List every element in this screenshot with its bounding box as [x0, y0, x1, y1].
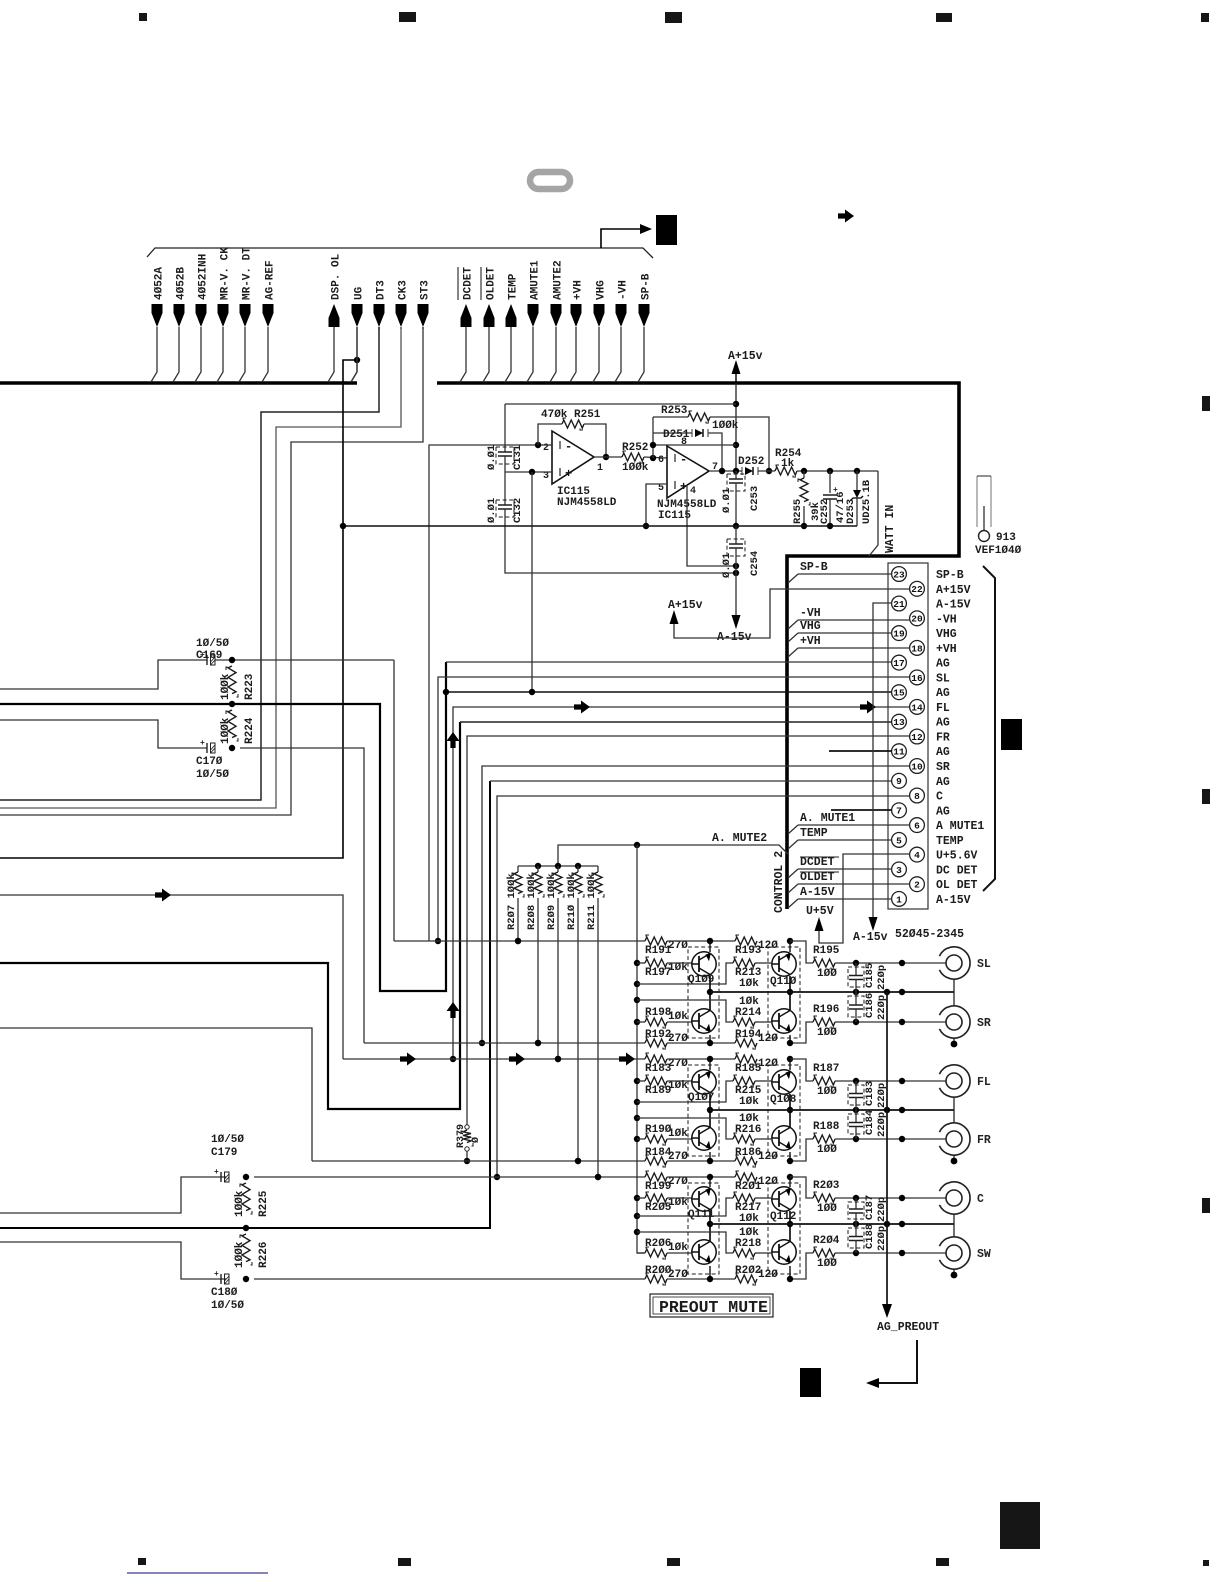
wire transistor leads right	[789, 1059, 791, 1070]
wire pin3 node descent to AG row	[531, 472, 533, 692]
rca jack SL	[939, 947, 970, 979]
wire A.MUTE2 run	[558, 845, 788, 866]
svg-text:DCDET: DCDET	[800, 856, 835, 869]
wire bank resistor lead	[597, 898, 599, 1177]
svg-text:1ØØ: 1ØØ	[817, 1027, 837, 1039]
junction C252-rail	[827, 523, 833, 529]
connector pin 1 (A-15V)	[892, 892, 907, 907]
resistor R204 100 output lower	[790, 1253, 813, 1279]
wire C131 to pin3 node	[504, 456, 506, 505]
wire C180 feed from left edge	[0, 1242, 226, 1279]
bus 2 (thick) with cable border	[437, 383, 959, 909]
wire C169 node to SL row	[393, 660, 395, 941]
svg-text:22: 22	[911, 584, 923, 595]
svg-text:VHG: VHG	[800, 620, 821, 633]
op-amp U1 IC115 (first)	[552, 431, 594, 484]
svg-text:UG: UG	[354, 286, 366, 300]
wire ST3 run	[0, 327, 423, 815]
signal arrow OLDET	[484, 304, 495, 327]
wire pin13 AG row	[460, 721, 892, 723]
wire jack shield link	[953, 979, 955, 1006]
page registration marks	[139, 13, 147, 21]
svg-text:R211 1ØØk: R211 1ØØk	[586, 873, 598, 930]
resistor R213 10k	[637, 963, 733, 984]
signal arrow 4052A	[152, 304, 163, 327]
svg-text:1Øk: 1Øk	[739, 996, 759, 1008]
svg-text:7: 7	[896, 806, 902, 817]
wire arrow stem	[550, 327, 556, 382]
svg-text:C186: C186	[864, 993, 876, 1018]
transistor Q108 lower	[772, 1126, 796, 1150]
wire SR input row	[364, 1042, 645, 1044]
svg-text:R2Ø4: R2Ø4	[813, 1235, 840, 1247]
capacitor C188 220p	[855, 1224, 857, 1237]
svg-text:1Øk: 1Øk	[668, 1242, 688, 1254]
junction emitter bottom right	[787, 1040, 793, 1046]
signal arrow MR-V. DT	[240, 304, 251, 327]
dashed box transistor pair left	[688, 947, 719, 1038]
svg-text:NJM4558LD: NJM4558LD	[557, 497, 617, 509]
svg-text:R379: R379	[456, 1124, 467, 1148]
svg-text:FL: FL	[936, 702, 950, 715]
junction R379-FR row	[464, 1158, 470, 1164]
junction pin3-AG row	[529, 689, 535, 695]
svg-text:AG: AG	[936, 658, 950, 671]
svg-text:R251: R251	[574, 409, 601, 421]
svg-text:1ØØk: 1ØØk	[220, 717, 232, 744]
svg-text:12Ø: 12Ø	[758, 1269, 778, 1281]
svg-text:1Øk: 1Øk	[739, 1227, 759, 1239]
svg-text:1ØØk: 1ØØk	[220, 673, 232, 700]
junction R255-rail	[801, 523, 807, 529]
zener diode D253 UDZ5.1B	[856, 471, 858, 490]
signal arrow AMUTE1	[528, 304, 539, 327]
overline DCDET	[800, 856, 839, 858]
wire AG thick from left edge (y=704)	[0, 662, 446, 991]
junction SR descent	[479, 1040, 485, 1046]
wire bank resistor lead	[557, 898, 559, 1059]
bus 1 (thick)	[0, 381, 357, 385]
capacitor C180	[220, 1274, 222, 1284]
svg-text:AMUTE1: AMUTE1	[530, 260, 542, 300]
svg-text:1Ø/5Ø: 1Ø/5Ø	[211, 1300, 244, 1312]
junction bank resistor	[515, 938, 521, 944]
wire op-amp pin2 descent x=429	[429, 445, 538, 941]
wire collector rail	[710, 991, 954, 993]
junction x653 y445	[650, 442, 656, 448]
junction emitter top left	[707, 938, 713, 944]
svg-text:WATT IN: WATT IN	[884, 505, 897, 553]
capacitor C183 220p	[855, 1081, 857, 1094]
wire A+15v to pin22	[674, 589, 910, 638]
junction out-C253	[733, 468, 739, 474]
junction FL descent	[450, 1056, 456, 1062]
resistor R200 270 lower	[645, 1275, 667, 1283]
signal arrow AG-REF	[263, 304, 274, 327]
svg-text:FR: FR	[936, 732, 950, 745]
junction rail trunk	[884, 989, 890, 995]
svg-text:15: 15	[893, 688, 905, 699]
off-page connector block (right)	[1001, 719, 1022, 750]
signal arrow DT3	[374, 304, 385, 327]
svg-text:4: 4	[914, 850, 920, 861]
connector pin 8 (C)	[910, 788, 925, 803]
flow arrow on FL feed	[155, 889, 171, 902]
svg-text:TEMP: TEMP	[936, 835, 964, 848]
svg-text:Ø.Ø1: Ø.Ø1	[721, 488, 733, 513]
svg-text:R223: R223	[244, 673, 256, 700]
svg-text:8: 8	[914, 791, 920, 802]
svg-text:-VH: -VH	[618, 280, 630, 300]
junction out row x902	[899, 960, 905, 966]
svg-text:1k: 1k	[781, 458, 795, 470]
svg-text:C187: C187	[864, 1195, 876, 1220]
svg-text:DSP. OL: DSP. OL	[331, 253, 343, 300]
wire WATT IN drop	[869, 471, 878, 556]
connector pin 22 (A+15V)	[910, 581, 925, 596]
svg-text:C179: C179	[211, 1147, 237, 1159]
rca jack C	[939, 1182, 970, 1214]
junction emitter bottom right	[787, 1276, 793, 1282]
capacitor C185 220p	[855, 963, 857, 976]
resistor R202 120 lower	[667, 1278, 735, 1280]
svg-text:1Ø/5Ø: 1Ø/5Ø	[196, 638, 229, 650]
svg-text:1Øk: 1Øk	[739, 1096, 759, 1108]
capacitor C253 0.01	[735, 471, 737, 479]
transistor Q110 upper	[772, 952, 796, 976]
junction bank resistor	[555, 1056, 561, 1062]
wire pin3 input row	[505, 471, 552, 473]
supply arrow A-15v (below op-amp)	[732, 615, 741, 629]
svg-text:2: 2	[914, 880, 920, 891]
resistor R193 120	[667, 940, 735, 942]
svg-text:1ØØk: 1ØØk	[622, 462, 649, 474]
junction out row cap	[853, 960, 859, 966]
junction emitter bottom left	[707, 1040, 713, 1046]
resistor R207 100k	[517, 866, 519, 872]
svg-text:22Øp: 22Øp	[876, 965, 888, 990]
wire jack shield stub	[953, 1038, 955, 1042]
connector pin 11 (AG)	[892, 744, 907, 759]
svg-text:R196: R196	[813, 1004, 839, 1016]
resistor R191 270	[645, 937, 667, 945]
svg-text:A-15v: A-15v	[853, 931, 888, 944]
svg-text:CONTROL 2: CONTROL 2	[773, 851, 786, 913]
connector pin 15 (AG)	[892, 685, 907, 700]
junction x736 rail404	[733, 401, 739, 407]
junction SL row	[435, 938, 441, 944]
junction emitter top left	[707, 1056, 713, 1062]
svg-text:OLDET: OLDET	[800, 871, 835, 884]
connector pin 19 (VHG)	[892, 626, 907, 641]
connector 913 VEF1040	[976, 476, 978, 527]
svg-text:C: C	[936, 791, 943, 804]
svg-text:27Ø: 27Ø	[668, 1176, 688, 1188]
resistor R255 39k	[803, 471, 805, 478]
svg-text:+: +	[214, 1270, 219, 1279]
svg-text:D252: D252	[738, 456, 764, 468]
svg-text:1ØØ: 1ØØ	[817, 968, 837, 980]
resistor R203 100 output	[790, 1177, 813, 1198]
svg-text:C253: C253	[749, 486, 761, 511]
resistor R253 100k feedback	[653, 416, 688, 418]
transistor Q111 lower	[692, 1240, 716, 1264]
junction R225-R226 on AG wire	[243, 1225, 249, 1231]
junction rail trunk	[884, 1221, 890, 1227]
wire arrow stem	[593, 327, 599, 382]
svg-text:SP-B: SP-B	[936, 569, 964, 582]
flow arrow up on FL descent lower	[447, 1002, 460, 1018]
signal arrow UG	[352, 304, 363, 327]
svg-text:UDZ5.1B: UDZ5.1B	[861, 479, 873, 524]
junction D253 top	[854, 468, 860, 474]
connector pin 17 (AG)	[892, 655, 907, 670]
svg-text:SR: SR	[936, 761, 950, 774]
page blue rule bottom left	[127, 1572, 268, 1574]
svg-text:R225: R225	[258, 1190, 270, 1217]
wire pin17 AG row	[446, 661, 892, 663]
resistor R205 10k	[637, 1197, 645, 1199]
svg-text:AMUTE2: AMUTE2	[553, 260, 565, 300]
svg-text:OLDET: OLDET	[486, 267, 498, 300]
svg-text:1Ø/5Ø: 1Ø/5Ø	[211, 1134, 244, 1146]
transistor Q108 upper	[772, 1070, 796, 1094]
connector pin 13 (AG)	[892, 714, 907, 729]
junction out2 row x902	[899, 1019, 905, 1025]
junction R255 top	[801, 468, 807, 474]
wire CK3 run	[0, 327, 401, 808]
svg-text:+: +	[200, 739, 205, 748]
svg-text:C131: C131	[512, 445, 524, 470]
svg-text:A-15V: A-15V	[936, 599, 971, 612]
overline OLDET	[800, 871, 839, 873]
wire OLDET hook	[788, 884, 798, 893]
svg-text:A-15V: A-15V	[800, 886, 835, 899]
wire A+15V vertical x=736	[735, 383, 737, 471]
svg-text:-VH: -VH	[936, 613, 957, 626]
svg-text:C254: C254	[749, 551, 761, 576]
junction rail x902	[899, 1221, 905, 1227]
wire R254 output run	[797, 470, 878, 472]
capacitor C254 0.01	[735, 526, 737, 544]
junction C170-R224	[229, 745, 235, 751]
connector pin 10 (SR)	[910, 759, 925, 774]
resistor R192 270 lower	[645, 1039, 667, 1047]
svg-text:Ø.Ø1: Ø.Ø1	[486, 498, 498, 523]
svg-text:1Øk: 1Øk	[668, 1128, 688, 1140]
connector bracket right	[983, 566, 995, 891]
resistor R189 10k	[637, 1080, 645, 1082]
resistor R194 120 lower	[667, 1042, 735, 1044]
wire pin4 to A-15V feed	[687, 485, 736, 566]
diode D252	[745, 467, 753, 475]
signal arrow +VH	[571, 304, 582, 327]
svg-text:12Ø: 12Ø	[758, 1151, 778, 1163]
junction bank resistor	[535, 1040, 541, 1046]
signal arrow DSP. OL	[329, 304, 340, 327]
svg-text:A+15V: A+15V	[936, 584, 971, 597]
capacitor C131	[504, 404, 506, 452]
junction rail cap	[853, 1221, 859, 1227]
resistor R187 100 output	[790, 1059, 813, 1081]
signal arrow MR-V. CK	[218, 304, 229, 327]
junction out row cap	[853, 1195, 859, 1201]
svg-text:Ø: Ø	[470, 1137, 482, 1143]
dashed box transistor pair left	[688, 1183, 719, 1274]
svg-text:19: 19	[893, 629, 905, 640]
svg-text:CK3: CK3	[398, 280, 410, 300]
wire output row op-amp1	[594, 456, 622, 458]
svg-text:1Øk: 1Øk	[739, 1113, 759, 1125]
connector pin 12 (FR)	[910, 729, 925, 744]
flow arrow FL row (right)	[860, 701, 876, 714]
svg-text:R2Ø9 1ØØk: R2Ø9 1ØØk	[546, 873, 558, 930]
junction UG stem	[354, 357, 360, 363]
wire mute bus vertical	[637, 845, 645, 1253]
transistor Q109 lower	[692, 1009, 716, 1033]
svg-text:+VH: +VH	[936, 643, 957, 656]
wire R379 to FR row	[466, 1151, 468, 1161]
resistor R199 270	[645, 1173, 667, 1181]
junction R223-R224 on AG wire	[229, 701, 235, 707]
signal arrow AMUTE2	[551, 304, 562, 327]
connector pin 21 (A-15V)	[892, 596, 907, 611]
wire transistor leads left	[709, 941, 711, 952]
svg-text:Q11Ø: Q11Ø	[770, 976, 797, 988]
wire C169 feed from left edge	[0, 660, 207, 689]
capacitor C187 220p	[855, 1198, 857, 1209]
wire arrow stem	[483, 327, 489, 382]
connector box	[888, 563, 928, 909]
svg-text:Q1Ø8: Q1Ø8	[770, 1094, 797, 1106]
junction out2 row x902	[899, 1136, 905, 1142]
svg-text:R21Ø 1ØØk: R21Ø 1ØØk	[566, 873, 578, 930]
svg-text:12Ø: 12Ø	[758, 940, 778, 952]
wire DT3 run	[0, 327, 379, 800]
svg-text:C184: C184	[864, 1110, 876, 1135]
wire pin12 FR row + descent to R379	[467, 736, 910, 1125]
svg-text:6: 6	[914, 821, 920, 832]
junction out2 row cap	[853, 1019, 859, 1025]
junction out row x902	[899, 1195, 905, 1201]
junction emitter top right	[787, 1056, 793, 1062]
wire +VH hook	[788, 648, 798, 657]
rca jack FR	[939, 1123, 970, 1155]
svg-text:R255: R255	[792, 499, 804, 524]
junction collectors rail	[707, 1221, 713, 1227]
wire pin5 to A-15V rail	[646, 484, 667, 526]
wire SW input row	[254, 1278, 645, 1280]
wire C input row	[254, 1176, 645, 1178]
svg-text:A+15v: A+15v	[668, 599, 703, 612]
wire pin10 SR row + descent	[482, 766, 910, 1043]
rca jack SR	[939, 1006, 970, 1038]
svg-text:1ØØk: 1ØØk	[712, 420, 739, 432]
wire pin8 supply y=445	[653, 444, 736, 446]
svg-text:5: 5	[896, 835, 902, 846]
gray stadium logo	[530, 172, 570, 189]
svg-text:R226: R226	[258, 1242, 270, 1268]
svg-text:AG: AG	[936, 717, 950, 730]
svg-text:R224: R224	[244, 717, 256, 744]
svg-text:VHG: VHG	[596, 280, 608, 300]
svg-text:R2Ø7 1ØØk: R2Ø7 1ØØk	[506, 873, 518, 930]
signal arrow -VH	[616, 304, 627, 327]
svg-text:FR: FR	[977, 1134, 991, 1147]
svg-text:C18Ø: C18Ø	[211, 1287, 238, 1299]
signal arrow SP-B	[639, 304, 650, 327]
junction A.MUTE2 to mute bus	[634, 842, 640, 848]
connector pin 4 (U+5.6V)	[910, 847, 925, 862]
wire C169 node	[215, 659, 394, 661]
svg-text:Q112: Q112	[770, 1211, 796, 1223]
capacitor C132	[498, 504, 512, 506]
svg-text:MR-V. DT: MR-V. DT	[242, 247, 254, 300]
svg-text:R2Ø8 1ØØk: R2Ø8 1ØØk	[526, 873, 538, 930]
transistor Q112 lower	[772, 1240, 796, 1264]
resistor R201 120	[667, 1176, 735, 1178]
junction AG x=446	[443, 689, 449, 695]
svg-text:A. MUTE1: A. MUTE1	[800, 812, 855, 825]
svg-text:20: 20	[911, 614, 923, 625]
wire bank top bus	[518, 865, 598, 867]
off-page connector block (top)	[656, 215, 677, 245]
svg-text:-: -	[680, 453, 687, 467]
junction x736 y445	[733, 442, 739, 448]
svg-text:14: 14	[911, 702, 923, 713]
junction pin3 node	[529, 469, 535, 475]
flow arrow FL row (mid)	[574, 701, 590, 714]
wire C170 feed from left edge	[0, 720, 207, 748]
wire C170 node to SR row	[240, 748, 364, 1043]
wire A-15V hook	[788, 899, 798, 908]
junction rail x902	[899, 1107, 905, 1113]
junction D252-R254	[766, 468, 772, 474]
wire arrow stem	[570, 327, 576, 382]
transistor Q111 upper	[692, 1187, 716, 1211]
svg-text:13: 13	[893, 717, 905, 728]
wire A-15V rail y=526	[343, 525, 857, 527]
junction pin4 join	[733, 563, 739, 569]
svg-text:A. MUTE2: A. MUTE2	[712, 832, 767, 845]
wire UG stem foot	[351, 327, 357, 382]
resistor R185 120	[667, 1058, 735, 1060]
signal arrow CK3	[396, 304, 407, 327]
resistor R196 100 output lower	[790, 1022, 813, 1043]
svg-text:SP-B: SP-B	[641, 273, 653, 300]
wire pin7 AG stub	[831, 809, 892, 811]
flow arrow up on FL descent	[447, 732, 460, 748]
capacitor C179	[220, 1172, 222, 1182]
svg-text:VHG: VHG	[936, 628, 957, 641]
wire to R254	[758, 470, 775, 472]
diode D251	[653, 432, 692, 434]
svg-text:1Øk: 1Øk	[668, 1080, 688, 1092]
svg-text:R218: R218	[735, 1238, 762, 1250]
svg-text:C17Ø: C17Ø	[196, 756, 223, 768]
svg-text:12Ø: 12Ø	[758, 1176, 778, 1188]
svg-text:23: 23	[893, 569, 905, 580]
svg-text:12Ø: 12Ø	[758, 1058, 778, 1070]
resistor R208 100k	[537, 866, 539, 872]
svg-text:R214: R214	[735, 1007, 762, 1019]
wire jack shield stub	[953, 1269, 955, 1273]
wire -VH hook	[788, 620, 798, 629]
svg-text:C132: C132	[512, 498, 524, 523]
resistor R254 1k	[775, 467, 797, 475]
resistor R197 10k	[637, 962, 645, 964]
svg-text:Ø.Ø1: Ø.Ø1	[486, 445, 498, 470]
